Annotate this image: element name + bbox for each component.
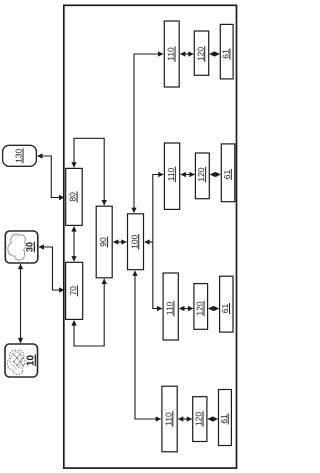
group 1 (rightmost) arrow 110-120 <box>180 53 193 55</box>
group 2 arrow 120-61 <box>210 174 220 176</box>
group 4 (leftmost) box 120 <box>193 397 207 442</box>
group 2 box 61 <box>221 144 235 202</box>
group 4 (leftmost) box 110 <box>162 386 177 452</box>
bus A: 100 right side to group1 110 <box>134 54 163 213</box>
group 1 (rightmost) box 110 <box>164 21 179 87</box>
group 2 arrow 110-120 <box>181 174 195 176</box>
svg-text:80: 80 <box>68 192 78 202</box>
svg-text:61: 61 <box>220 304 230 314</box>
bus B: 100 left side to group4 110 <box>135 271 161 419</box>
bus C spanning group3 to group2 <box>153 175 163 309</box>
bus C stub into 100 bottom <box>145 241 153 243</box>
group 1 (rightmost) arrow 120-61 <box>210 53 220 55</box>
svg-text:110: 110 <box>166 47 176 61</box>
box 100 <box>128 214 144 270</box>
box 80 <box>66 168 83 225</box>
connector 70 - 90 (elbow on left, double arrow) <box>74 279 104 346</box>
svg-text:70: 70 <box>68 286 78 296</box>
svg-text:90: 90 <box>98 237 108 247</box>
svg-text:100: 100 <box>129 234 139 248</box>
svg-text:61: 61 <box>221 49 231 59</box>
cloud icon 30 <box>8 234 26 260</box>
svg-text:120: 120 <box>195 47 205 61</box>
device box 10 (rounded) <box>5 344 38 377</box>
group 4 (leftmost) arrow 120-61 <box>208 418 218 420</box>
svg-text:120: 120 <box>195 301 205 315</box>
group 3 box 120 <box>194 284 208 330</box>
connector 30 - 70 (elbow, double arrow) <box>39 247 64 290</box>
group 3 box 61 <box>220 276 233 332</box>
connector 80 - 90 (elbow on right, double arrow) <box>74 138 104 205</box>
device box 30 (rounded, cloud) <box>5 231 38 263</box>
device box 130 (rounded) <box>3 145 37 166</box>
svg-text:61: 61 <box>219 414 229 424</box>
connector 90 - 100 (double arrow) <box>113 241 126 243</box>
connector 130 - 80 (elbow, double arrow) <box>38 156 65 198</box>
svg-text:120: 120 <box>196 167 206 181</box>
group 3 box 110 <box>163 273 178 340</box>
connector 70 - 80 (double arrow) <box>73 227 75 262</box>
outer system boundary rectangle <box>64 5 237 468</box>
svg-text:30: 30 <box>25 242 35 252</box>
icon inside 10: speckled blob with network cluster <box>7 350 25 375</box>
group 2 box 110 <box>164 143 179 209</box>
connector 10 - 30 (double arrow) <box>20 264 22 343</box>
svg-text:61: 61 <box>222 170 232 180</box>
group 3 arrow 120-61 <box>209 308 219 310</box>
svg-text:130: 130 <box>13 148 23 162</box>
svg-text:110: 110 <box>166 167 176 181</box>
group 3 arrow 110-120 <box>180 308 193 310</box>
box 90 <box>96 206 112 278</box>
group 4 (leftmost) arrow 110-120 <box>178 418 191 420</box>
box 70 <box>66 262 83 319</box>
group 2 box 120 <box>195 153 209 199</box>
group 1 (rightmost) box 120 <box>194 31 208 75</box>
svg-text:110: 110 <box>163 412 173 426</box>
group 1 (rightmost) box 61 <box>220 24 233 79</box>
svg-text:110: 110 <box>165 301 175 315</box>
group 4 (leftmost) box 61 <box>219 390 232 446</box>
svg-text:120: 120 <box>194 412 204 426</box>
